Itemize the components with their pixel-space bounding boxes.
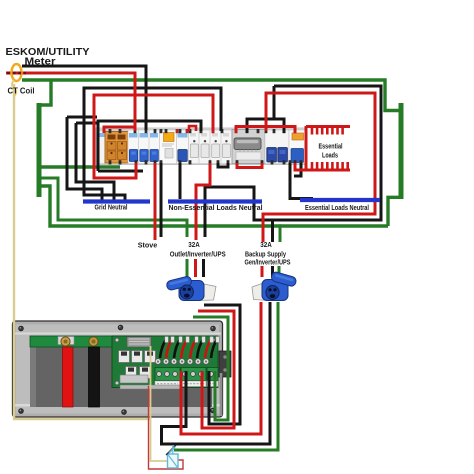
svg-text:Stove: Stove <box>138 241 158 250</box>
svg-text:Essential: Essential <box>319 142 343 151</box>
svg-text:32A: 32A <box>260 240 272 249</box>
svg-text:Loads: Loads <box>322 151 338 160</box>
svg-text:32A: 32A <box>188 240 200 249</box>
svg-text:Gen/Inverter/UPS: Gen/Inverter/UPS <box>245 258 291 267</box>
svg-text:Essential Loads Neutral: Essential Loads Neutral <box>305 205 369 212</box>
svg-text:Meter: Meter <box>25 56 56 67</box>
svg-text:Non-Essential Loads Neutral: Non-Essential Loads Neutral <box>169 205 263 212</box>
svg-text:Grid Neutral: Grid Neutral <box>95 205 128 212</box>
svg-text:Outlet/Inverter/UPS: Outlet/Inverter/UPS <box>170 250 226 259</box>
svg-text:CT Coil: CT Coil <box>8 86 35 96</box>
